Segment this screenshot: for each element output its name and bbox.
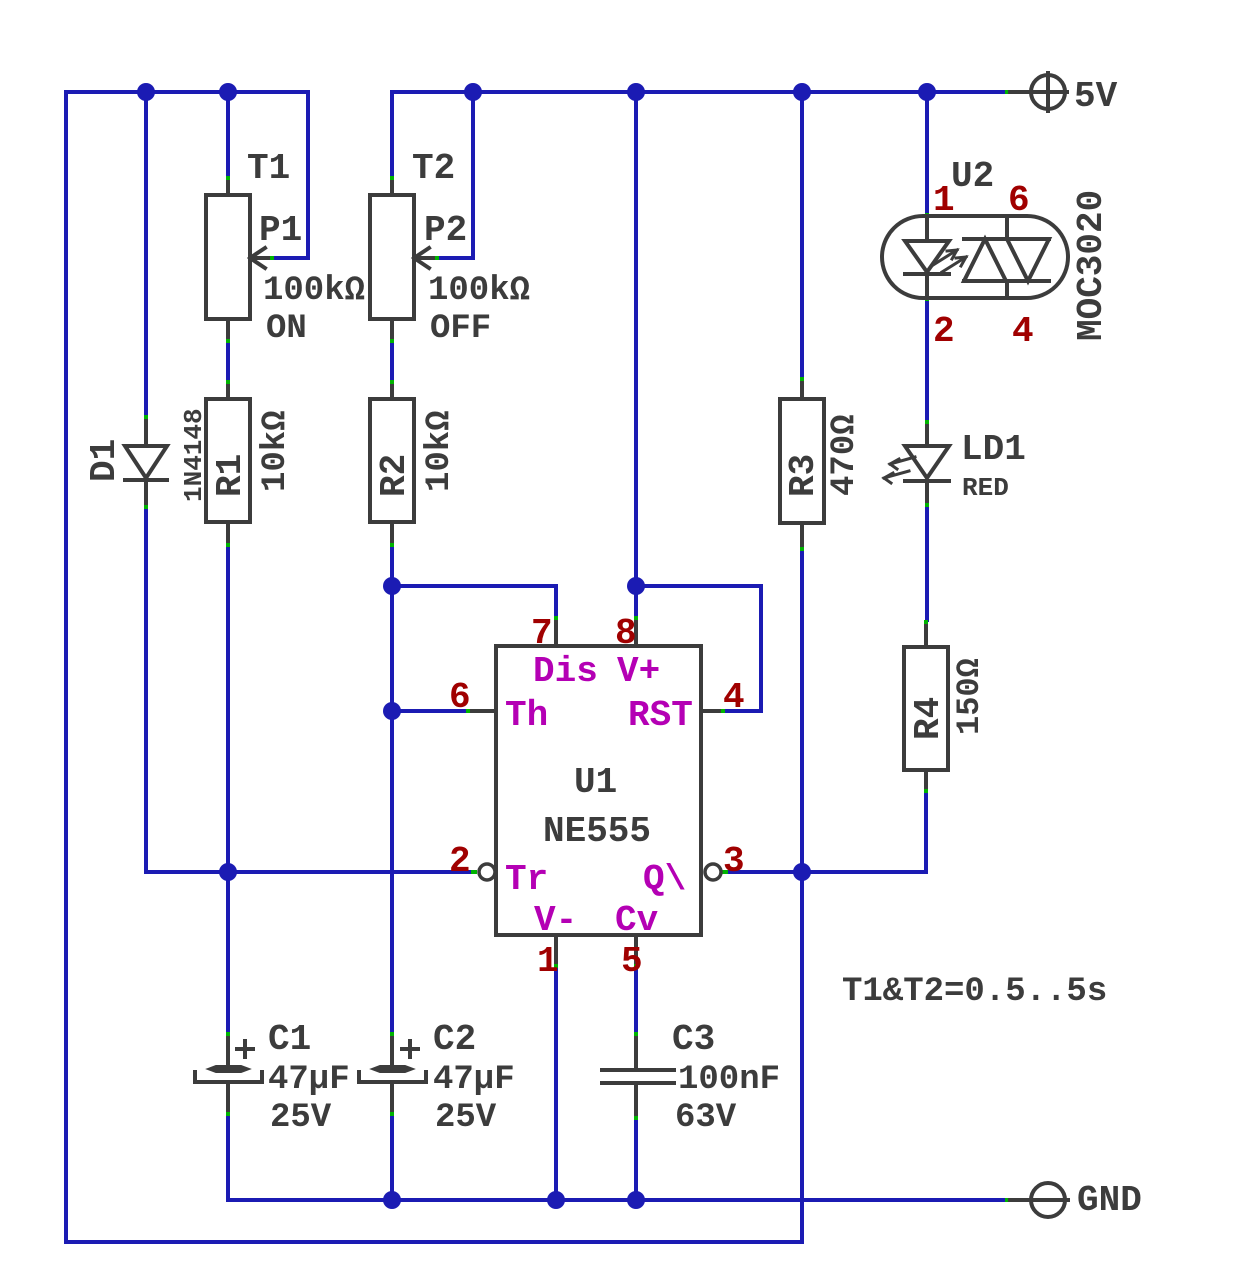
U2 LED light arrows (933, 250, 957, 265)
junction node Q (R3/R4/output riser) (793, 863, 811, 881)
svg-text:V-: V- (534, 900, 577, 941)
svg-text:R1: R1 (210, 454, 251, 497)
wire pin1 V- down to GND rail (554, 968, 558, 1200)
svg-text:10kΩ: 10kΩ (257, 410, 295, 492)
wire 5V rail drop to U2 pin1 (925, 92, 929, 213)
svg-text:6: 6 (1008, 180, 1030, 221)
wire junction B to pin6 Th (392, 709, 466, 713)
svg-text:47µF: 47µF (268, 1061, 350, 1099)
junction GND rail at C3 (627, 1191, 645, 1209)
R1 pin stubs (226, 386, 230, 399)
resistor R1 body (206, 399, 250, 522)
resistor R2 body (370, 399, 414, 522)
svg-text:100kΩ: 100kΩ (428, 272, 530, 310)
svg-text:U2: U2 (951, 156, 994, 197)
svg-text:470Ω: 470Ω (826, 414, 864, 496)
svg-text:GND: GND (1077, 1180, 1142, 1221)
capacitor C3 plates (602, 1068, 674, 1072)
svg-text:D1: D1 (84, 439, 125, 482)
R2 pin stubs (390, 386, 394, 399)
C1 polarized top plate (208, 1066, 249, 1072)
wire GND rail (228, 1198, 1004, 1202)
svg-text:T1&T2=0.5..5s: T1&T2=0.5..5s (842, 973, 1107, 1011)
wire R1 bottom to C1 top through Tr junction (226, 547, 230, 1032)
svg-text:5: 5 (621, 941, 643, 982)
svg-text:U1: U1 (574, 762, 617, 803)
wire D1 bottom to pin2 Tr (146, 509, 471, 872)
wire LD1 bottom to R4 top (925, 507, 929, 620)
svg-text:63V: 63V (675, 1099, 737, 1137)
supply symbol 5V (1031, 75, 1065, 109)
U2 internal triac (1005, 216, 1009, 239)
capacitor C1 bottom bracket plate (195, 1072, 262, 1082)
svg-text:100kΩ: 100kΩ (263, 272, 365, 310)
supply symbol GND (1031, 1183, 1065, 1217)
svg-text:Q\: Q\ (643, 859, 686, 900)
svg-text:10kΩ: 10kΩ (421, 410, 459, 492)
svg-text:R2: R2 (374, 454, 415, 497)
wire pin8 junction to pin4 RST elbow (636, 586, 761, 711)
C3 pin stubs (634, 1038, 638, 1068)
U2 internal LED (925, 216, 929, 241)
resistor R4 body (904, 647, 948, 770)
junction GND rail at C2 (383, 1191, 401, 1209)
wire R4 bottom drop to pin3 net (924, 793, 928, 872)
svg-text:4: 4 (723, 677, 745, 718)
R3 pin stubs (800, 383, 804, 399)
potentiometer P2 body (370, 195, 414, 319)
junction node Th (383, 702, 401, 720)
U1 pin2 inversion circle (479, 864, 495, 880)
svg-text:MOC3020: MOC3020 (1071, 190, 1112, 341)
svg-text:P1: P1 (259, 210, 302, 251)
resistor R3 body (780, 399, 824, 523)
svg-text:Cv: Cv (615, 900, 658, 941)
junction GND rail at pin1 (547, 1191, 565, 1209)
svg-text:RST: RST (628, 695, 693, 736)
svg-text:8: 8 (615, 613, 637, 654)
U1 pin3 inversion circle (705, 864, 721, 880)
svg-text:25V: 25V (435, 1099, 497, 1137)
svg-text:47µF: 47µF (433, 1061, 515, 1099)
svg-text:ON: ON (266, 310, 307, 348)
svg-text:C3: C3 (672, 1019, 715, 1060)
wire pin5 Cv down to C3 (634, 968, 638, 1032)
wire 5V rail with T2 drop (392, 92, 1005, 176)
svg-text:1N4148: 1N4148 (179, 408, 209, 502)
wire D1 top drop (144, 92, 148, 415)
wire net OUT loop: top-left rail, left edge, bottom rail, riser to pin3 (66, 92, 802, 1242)
junction 5V rail at U2 column (918, 83, 936, 101)
svg-text:T2: T2 (412, 148, 455, 189)
junction 5V rail at P2 wiper riser (464, 83, 482, 101)
green pin-connection ticks (226, 176, 230, 182)
LD1 light arrows (890, 457, 915, 469)
svg-text:OFF: OFF (430, 310, 491, 348)
wire P1 bottom to R1 top (226, 343, 230, 380)
svg-text:Tr: Tr (505, 859, 548, 900)
C1 plus sign (237, 1041, 253, 1057)
svg-text:150Ω: 150Ω (951, 658, 988, 735)
potentiometer P1 body (206, 195, 250, 319)
wire C2 bottom to GND rail (390, 1116, 394, 1200)
P2 wiper arrow (414, 248, 433, 268)
P2 pin stubs (390, 182, 394, 195)
svg-text:25V: 25V (270, 1099, 332, 1137)
optocoupler U2 body MOC3020 (882, 216, 1068, 298)
wire P2 wiper riser to 5V rail (439, 92, 473, 258)
P1 wiper arrow (250, 248, 268, 268)
junction node Tr (R1/C1 column) (219, 863, 237, 881)
wire R2 bottom down to C2 top through junctions (390, 547, 394, 1032)
svg-text:R4: R4 (908, 697, 949, 740)
wire P1 wiper elbow to top-left rail (274, 92, 308, 258)
svg-text:Th: Th (505, 695, 548, 736)
C2 polarized top plate (372, 1066, 413, 1072)
C2 plus sign (402, 1041, 418, 1057)
C1 pin stubs (226, 1038, 230, 1064)
svg-text:P2: P2 (424, 210, 467, 251)
capacitor C2 bottom bracket plate (359, 1072, 426, 1082)
svg-text:R3: R3 (783, 454, 824, 497)
svg-text:100nF: 100nF (678, 1061, 780, 1099)
svg-text:V+: V+ (617, 651, 660, 692)
svg-text:C2: C2 (433, 1019, 476, 1060)
wire P2 bottom to R2 top (390, 343, 394, 380)
svg-text:7: 7 (531, 613, 553, 654)
svg-text:2: 2 (933, 311, 955, 352)
svg-text:5V: 5V (1074, 76, 1118, 117)
svg-text:2: 2 (449, 841, 471, 882)
op IC U1 NE555 body (496, 646, 701, 935)
svg-text:RED: RED (962, 473, 1009, 503)
P1 pin stubs (226, 182, 230, 195)
svg-text:3: 3 (723, 841, 745, 882)
svg-text:4: 4 (1012, 311, 1034, 352)
LED LD1 (925, 426, 929, 446)
svg-text:T1: T1 (247, 148, 290, 189)
wire T1 top pin drop (226, 92, 230, 176)
junction top rail at D1 column (137, 83, 155, 101)
junction top rail at T1 column (219, 83, 237, 101)
junction node Dis (R2 bottom / pin7) (383, 577, 401, 595)
wire junction A to pin7 Dis (392, 586, 556, 616)
wire C1 bottom to GND rail (226, 1116, 230, 1200)
wire pin3 Q to R4 column (728, 870, 926, 874)
svg-text:Dis: Dis (533, 651, 598, 692)
svg-text:LD1: LD1 (961, 429, 1026, 470)
svg-text:NE555: NE555 (543, 811, 651, 852)
junction 5V rail at R3 column (793, 83, 811, 101)
wire R3 bottom to pin3 junction (800, 551, 804, 872)
wire C3 bottom to GND rail (634, 1120, 638, 1200)
svg-text:1: 1 (537, 941, 559, 982)
junction 5V rail at pin8 column (627, 83, 645, 101)
wire 5V rail drop to pin8 V+ (634, 92, 638, 616)
svg-text:C1: C1 (268, 1019, 311, 1060)
svg-text:1: 1 (933, 180, 955, 221)
diode D1 (144, 421, 148, 446)
wire U2 pin2 down to LD1 (925, 301, 929, 420)
C2 pin stubs (390, 1038, 394, 1064)
U1 pin stubs 7,8,6,4,1,5 (554, 622, 558, 646)
R4 pin stubs (924, 626, 928, 647)
svg-text:6: 6 (449, 677, 471, 718)
wire 5V rail drop to R3 top (800, 92, 804, 377)
junction node V+ (pin8 elbow) (627, 577, 645, 595)
